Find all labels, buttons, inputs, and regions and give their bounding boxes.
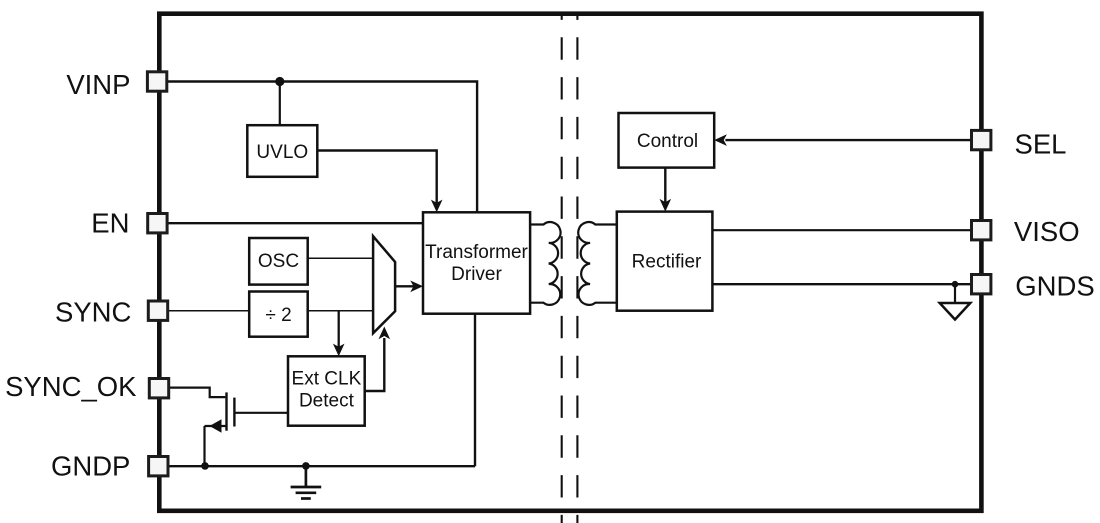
svg-text:Control: Control: [637, 131, 698, 152]
node junction GNDS: [952, 281, 959, 288]
wire OSC to mux: [308, 257, 373, 259]
svg-text:EN: EN: [91, 208, 129, 239]
pin SEL: [972, 130, 991, 149]
svg-text:SYNC: SYNC: [55, 296, 131, 327]
svg-text:Ext CLK: Ext CLK: [292, 369, 362, 390]
block OSC: [249, 238, 308, 285]
svg-text:Transformer: Transformer: [425, 242, 528, 263]
pin SYNC: [148, 301, 167, 320]
wire mux output to Transformer Driver: [395, 285, 414, 287]
block Rectifier: [617, 212, 713, 311]
wire VINP to UVLO: [279, 82, 281, 126]
transformer T1 secondary winding: [578, 222, 617, 305]
wire GNDP rail: [168, 465, 475, 467]
wire UVLO output to Transformer Driver: [317, 151, 436, 205]
transistor Q1 channel bar: [225, 392, 227, 430]
pin VINP: [147, 72, 166, 91]
svg-text:SEL: SEL: [1015, 129, 1067, 160]
node junction ground symbol: [302, 462, 310, 470]
wire SEL to Control: [725, 139, 971, 141]
ground GNDP symbol: [291, 466, 322, 498]
isolation barrier dashed line left: [561, 14, 563, 523]
svg-text:OSC: OSC: [258, 251, 299, 272]
svg-text:GNDP: GNDP: [51, 450, 130, 481]
wire VINP horizontal: [168, 82, 477, 213]
outer IC boundary: [159, 14, 981, 511]
svg-text:VISO: VISO: [1014, 216, 1080, 247]
block divider ÷2: [249, 292, 308, 337]
block Transformer Driver: [423, 212, 530, 313]
wire divider branch to Ext CLK Detect: [338, 311, 340, 348]
wire divider to mux: [308, 310, 373, 312]
transistor Q1 source with arrow: [205, 425, 227, 427]
pin VISO: [972, 221, 991, 240]
node junction on VINP wire: [275, 77, 284, 86]
svg-text:Driver: Driver: [451, 264, 502, 285]
node junction source/ground rail: [201, 462, 209, 470]
svg-text:GNDS: GNDS: [1015, 270, 1094, 301]
wire Rectifier to VISO: [712, 229, 971, 231]
block Control: [619, 113, 715, 168]
block UVLO: [247, 125, 317, 177]
transistor Q1 gate bar: [233, 398, 235, 427]
block Ext CLK Detect: [288, 356, 365, 425]
pin SYNC_OK: [149, 379, 168, 398]
wire EN: [168, 222, 423, 224]
wire source to ground rail: [203, 426, 205, 466]
wire SYNC to divider: [168, 310, 249, 312]
transformer T1 primary winding: [530, 222, 560, 305]
pin EN: [148, 214, 167, 233]
pin GNDS: [972, 275, 991, 294]
svg-text:Detect: Detect: [299, 391, 355, 412]
wire Ext CLK Detect to mux select: [365, 338, 385, 391]
wire gate to Ext CLK Detect: [234, 412, 288, 414]
svg-text:Rectifier: Rectifier: [632, 251, 702, 272]
pin GNDP: [149, 457, 168, 476]
ground GNDS symbol: [954, 284, 956, 306]
svg-text:UVLO: UVLO: [256, 142, 308, 163]
wire Transformer Driver to ground rail: [474, 314, 476, 467]
svg-text:VINP: VINP: [66, 69, 130, 100]
wire SYNC_OK to transistor drain: [168, 388, 225, 398]
wire Control to Rectifier: [664, 167, 666, 203]
isolation barrier dashed line right: [576, 14, 578, 523]
wire Rectifier to GNDS: [712, 283, 971, 285]
svg-text:÷ 2: ÷ 2: [265, 305, 291, 326]
svg-text:SYNC_OK: SYNC_OK: [5, 371, 137, 402]
mux MX1: [373, 236, 395, 333]
